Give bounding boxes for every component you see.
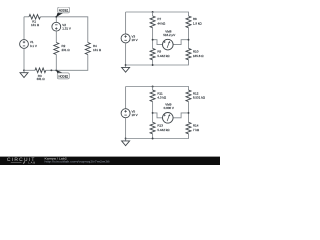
wire: voltmeter left tap	[153, 40, 163, 45]
wire: V1 to bottom rail	[23, 48, 25, 70]
wire: V5 to bottom rail	[125, 118, 127, 139]
wire: voltmeter right tap c3	[173, 113, 188, 118]
resistor R12	[186, 90, 191, 102]
node: junction at circuit2 ground	[125, 64, 127, 66]
resistor R14	[186, 122, 191, 134]
wire: bottom rail left segment	[24, 69, 35, 71]
svg-text:0.000 V: 0.000 V	[164, 106, 174, 110]
node NODE1 flag	[56, 13, 63, 17]
svg-text:5.442 kΩ: 5.442 kΩ	[157, 128, 170, 132]
wire: circuit2 top rail	[126, 12, 189, 16]
ground (circuit2)	[125, 65, 127, 67]
node: junction dot right tap c3	[188, 112, 190, 114]
svg-text:8.531 kΩ: 8.531 kΩ	[193, 96, 206, 100]
resistor R2	[54, 43, 59, 55]
wire: R2 to bottom rail	[55, 55, 57, 71]
svg-text:185.6 Ω: 185.6 Ω	[193, 54, 204, 58]
wire: voltmeter right tap	[173, 40, 188, 45]
node: junction at circuit3 ground	[125, 138, 127, 140]
resistor R13	[150, 122, 155, 134]
svg-text:1.31 V: 1.31 V	[62, 27, 71, 31]
resistor R7	[152, 12, 154, 16]
wire: circuit3 top rail	[126, 87, 189, 91]
resistor R4	[85, 43, 90, 55]
wire: bottom rail right segment	[46, 55, 88, 71]
node: junction dot mid-branch bottom	[152, 64, 154, 66]
voltage source V3	[121, 34, 130, 43]
footer watermark bar	[0, 157, 220, 165]
wire: circuit3 bottom rail	[126, 134, 189, 139]
svg-text:4.3 kΩ: 4.3 kΩ	[157, 96, 167, 100]
node: junction dot on bottom rail	[50, 69, 52, 71]
svg-text:LAB: LAB	[28, 161, 36, 165]
svg-text:1.9 kΩ: 1.9 kΩ	[193, 22, 203, 26]
wire: R9 to bottom rail	[152, 60, 154, 65]
svg-text:7 kΩ: 7 kΩ	[193, 128, 200, 132]
wire: voltmeter left tap c3	[153, 113, 163, 118]
node: junction dot left tap c3	[152, 112, 154, 114]
voltage source V1	[20, 40, 29, 49]
voltage source V2	[52, 22, 61, 31]
node: junction dot mid-branch bottom c3	[152, 138, 154, 140]
svg-text:3.1 V: 3.1 V	[30, 44, 37, 48]
node: junction at ground	[23, 69, 25, 71]
node: junction dot mid-branch top c3	[152, 86, 154, 88]
node NODE2 flag	[56, 70, 63, 73]
ground (left circuit)	[23, 70, 25, 72]
wire: R1 to top-right corner and down right branch	[40, 17, 88, 43]
svg-text:NODE2: NODE2	[59, 75, 69, 79]
wire: circuit3 left branch top	[125, 87, 127, 109]
wire: V2 to R2	[55, 31, 57, 42]
voltage source V5	[121, 109, 130, 118]
node: junction dot NODE1 tap	[55, 16, 57, 18]
node: junction dot left tap	[152, 39, 154, 41]
svg-text:5.442 kΩ: 5.442 kΩ	[157, 54, 170, 58]
wire: circuit2 left branch top	[125, 12, 127, 34]
svg-text:10 V: 10 V	[132, 113, 138, 117]
wire: R13 to bottom rail c3	[152, 134, 154, 139]
wire: R12 to R14	[188, 102, 190, 123]
svg-text:516.2 μV: 516.2 μV	[163, 33, 175, 37]
svg-text:44 kΩ: 44 kΩ	[157, 22, 166, 26]
wire: left circuit top rail	[24, 16, 29, 18]
svg-text:10 V: 10 V	[132, 38, 138, 42]
wire: R7 to tap	[152, 28, 154, 49]
wire: R8 to R10	[188, 28, 190, 49]
resistor R9	[150, 48, 155, 59]
svg-text:NODE1: NODE1	[59, 9, 69, 13]
svg-text:131 Ω: 131 Ω	[31, 23, 40, 27]
wire: middle branch top (NODE1 tap to V2)	[55, 17, 57, 23]
node: junction dot mid-branch top	[152, 11, 154, 13]
voltmeter VM9	[163, 113, 174, 124]
resistor R10	[186, 48, 191, 59]
svg-text:231 Ω: 231 Ω	[62, 48, 71, 52]
resistor R1	[29, 15, 40, 20]
svg-text:331 Ω: 331 Ω	[37, 77, 46, 81]
ground (circuit3)	[125, 139, 127, 141]
voltmeter VM8	[163, 39, 174, 50]
svg-text:http://circuitlab.com/cwpwq2b7: http://circuitlab.com/cwpwq2b7m2m38	[45, 161, 111, 164]
resistor R8	[186, 16, 191, 28]
wire: R11 to tap c3	[152, 102, 154, 123]
node: junction dot right tap	[188, 39, 190, 41]
wire: V3 to bottom rail	[125, 43, 127, 65]
resistor R3	[35, 68, 46, 73]
svg-text:131 Ω: 131 Ω	[93, 48, 102, 52]
wire: left branch down to V1	[23, 17, 25, 40]
wire: circuit2 bottom rail	[126, 60, 189, 65]
node: junction dot NODE2 tap	[55, 69, 57, 71]
resistor R11	[152, 87, 154, 91]
